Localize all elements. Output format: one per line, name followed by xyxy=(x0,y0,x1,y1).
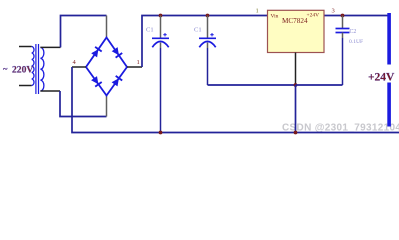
diode D bottom-left xyxy=(91,76,98,84)
svg-text:220V: 220V xyxy=(12,65,33,76)
wire: secondary top stub xyxy=(40,46,60,48)
svg-text:+24V: +24V xyxy=(368,72,395,84)
svg-text:~: ~ xyxy=(3,64,8,74)
label +24V output xyxy=(367,65,397,83)
junction dot C2 top xyxy=(206,14,210,18)
diode D top-right xyxy=(112,47,119,55)
wire: gnd link down to ground rail xyxy=(295,85,297,133)
junction dot C1 bottom xyxy=(159,131,163,135)
svg-text:MC7824: MC7824 xyxy=(282,17,308,25)
svg-text:Vin: Vin xyxy=(271,14,279,20)
junction dot on ground rail xyxy=(294,131,298,135)
svg-text:C2: C2 xyxy=(350,29,357,35)
junction dot C3 top xyxy=(341,14,345,18)
wire: bridge top pin drop xyxy=(106,16,108,38)
svg-text:+24V: +24V xyxy=(307,13,320,19)
diode D top-left xyxy=(91,49,98,57)
diode D bottom-right xyxy=(112,78,119,86)
bridge rectifier diamond xyxy=(86,38,127,96)
wire: DC minus down to ground rail xyxy=(72,67,399,133)
wire: DC plus up to top rail xyxy=(142,16,268,68)
capacitor C2 xyxy=(207,16,209,39)
wire: bridge right pin stub xyxy=(127,66,142,68)
wire: bridge left pin stub xyxy=(72,66,86,68)
wire: secondary top riser xyxy=(61,16,107,48)
wire: primary bottom lead xyxy=(19,85,32,87)
transformer T1 core xyxy=(35,44,37,94)
wire: C2 bottom to gnd link xyxy=(207,43,209,49)
junction dot C1 top xyxy=(159,14,163,18)
capacitor C1 xyxy=(160,16,162,39)
wire: primary top lead xyxy=(19,46,32,48)
svg-text:1: 1 xyxy=(137,59,140,66)
wire: regulator ground pin xyxy=(295,53,297,86)
junction dot gnd link xyxy=(294,83,298,87)
svg-text:3: 3 xyxy=(332,8,335,15)
transformer T1 secondary winding xyxy=(40,47,43,91)
svg-text:C1: C1 xyxy=(194,27,202,34)
capacitor C3 0.1UF xyxy=(342,16,344,29)
wire: secondary bottom stub xyxy=(40,90,60,92)
svg-text:0.1UF: 0.1UF xyxy=(349,39,363,45)
svg-text:1: 1 xyxy=(256,8,259,15)
wire: bridge bottom pin riser xyxy=(106,96,108,117)
wire: secondary bottom path xyxy=(60,91,107,117)
regulator U1 MC7824 box xyxy=(268,10,325,52)
wire: C3 bottom to gnd link xyxy=(296,84,343,86)
output terminal bar xyxy=(387,13,391,127)
transformer T1 primary winding xyxy=(32,47,34,86)
wire: top rail right of regulator xyxy=(324,15,390,17)
svg-text:C1: C1 xyxy=(146,27,154,34)
